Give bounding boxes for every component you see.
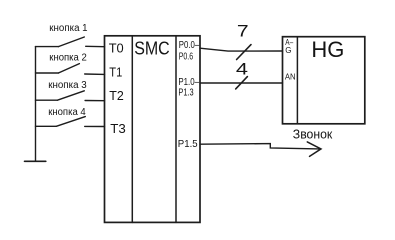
svg-text:T0: T0 xyxy=(109,40,124,55)
pin label P0.0-P0.6 xyxy=(179,40,200,62)
pin label P1.0-P1.3 xyxy=(178,77,199,99)
svg-text:7: 7 xyxy=(237,23,249,41)
svg-text:T2: T2 xyxy=(109,88,124,103)
svg-text:P0.6: P0.6 xyxy=(179,51,193,62)
svg-text:AN: AN xyxy=(285,73,296,82)
svg-text:T1: T1 xyxy=(109,64,122,79)
ground xyxy=(25,160,46,162)
svg-text:T3: T3 xyxy=(110,121,126,136)
display HG box xyxy=(283,37,365,124)
U1 partition line 1 xyxy=(131,36,133,223)
svg-text:P0.0–: P0.0– xyxy=(179,40,200,51)
IC U1 SMC box xyxy=(105,36,201,223)
switch S2 (кнопка 2) xyxy=(36,64,105,75)
svg-text:кнопка 2: кнопка 2 xyxy=(49,52,87,63)
svg-text:кнопка 1: кнопка 1 xyxy=(49,23,88,34)
svg-text:P1.0–: P1.0– xyxy=(178,77,199,88)
switch S1 (кнопка 1) xyxy=(36,37,105,47)
U1 partition line 2 xyxy=(175,36,177,223)
svg-text:кнопка 3: кнопка 3 xyxy=(48,80,87,91)
svg-text:G: G xyxy=(285,46,291,55)
svg-text:P1.3: P1.3 xyxy=(178,88,193,99)
svg-text:HG: HG xyxy=(311,37,344,62)
svg-text:P1.5: P1.5 xyxy=(178,139,198,150)
switch S3 (кнопка 3) xyxy=(36,91,105,101)
wire P1.5 to bell output xyxy=(200,144,320,149)
svg-text:SMC: SMC xyxy=(134,37,170,58)
bus wire P0 port to HG A-G xyxy=(200,48,283,51)
svg-text:4: 4 xyxy=(236,60,248,79)
bus slash (7 lines) xyxy=(237,45,251,60)
HG partition line xyxy=(296,37,298,124)
bus wire P1 port to HG AN xyxy=(200,82,283,84)
pin label A-G xyxy=(285,38,293,55)
svg-text:Звонок: Звонок xyxy=(293,126,333,141)
left bus wire xyxy=(35,47,37,162)
switch S4 (кнопка 4) xyxy=(36,117,105,127)
svg-text:кнопка 4: кнопка 4 xyxy=(48,107,86,118)
bus slash (4 lines) xyxy=(236,77,248,89)
arrowhead (bell output) xyxy=(307,142,321,157)
